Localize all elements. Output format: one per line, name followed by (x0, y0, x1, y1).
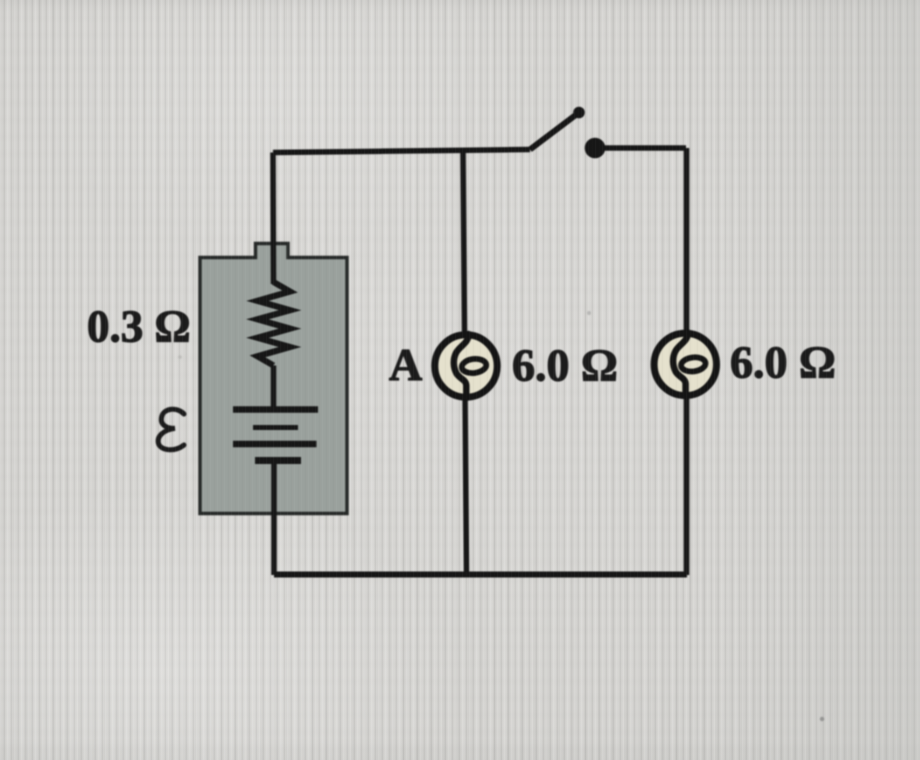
wire left vertical (270, 153, 276, 285)
paper speck 1 (820, 717, 824, 721)
label EMF script epsilon (158, 409, 184, 450)
battery cell plate long 1 (233, 406, 318, 413)
switch lever (530, 114, 577, 150)
battery cell plate short 1 (253, 425, 298, 430)
lamp 2 circle (654, 333, 716, 395)
svg-text:6.0 Ω: 6.0 Ω (512, 340, 618, 391)
switch contact dot (585, 138, 606, 159)
wire right vertical (684, 148, 690, 575)
paper speck 2 (587, 311, 591, 315)
battery cell plate long 2 (233, 441, 317, 448)
wire resistor to battery (271, 366, 277, 410)
paper speck 3 (178, 355, 182, 359)
svg-text:A: A (389, 339, 422, 390)
wire battery to bottom (271, 460, 277, 575)
lamp 1 circle (435, 335, 497, 397)
lamp 1 filament (454, 334, 469, 398)
wire top-left horizontal (273, 150, 530, 153)
resistor 0.3 ohm zigzag (258, 282, 291, 366)
wire top-right horizontal (595, 145, 686, 151)
switch lever end dot (573, 107, 585, 119)
battery box (200, 244, 347, 514)
battery cell plate short 2 (255, 457, 301, 464)
svg-text:6.0 Ω: 6.0 Ω (730, 337, 836, 388)
wire middle vertical (463, 151, 467, 575)
wire bottom horizontal (274, 572, 687, 578)
svg-text:0.3 Ω: 0.3 Ω (87, 302, 191, 352)
lamp 2 filament (673, 332, 706, 396)
